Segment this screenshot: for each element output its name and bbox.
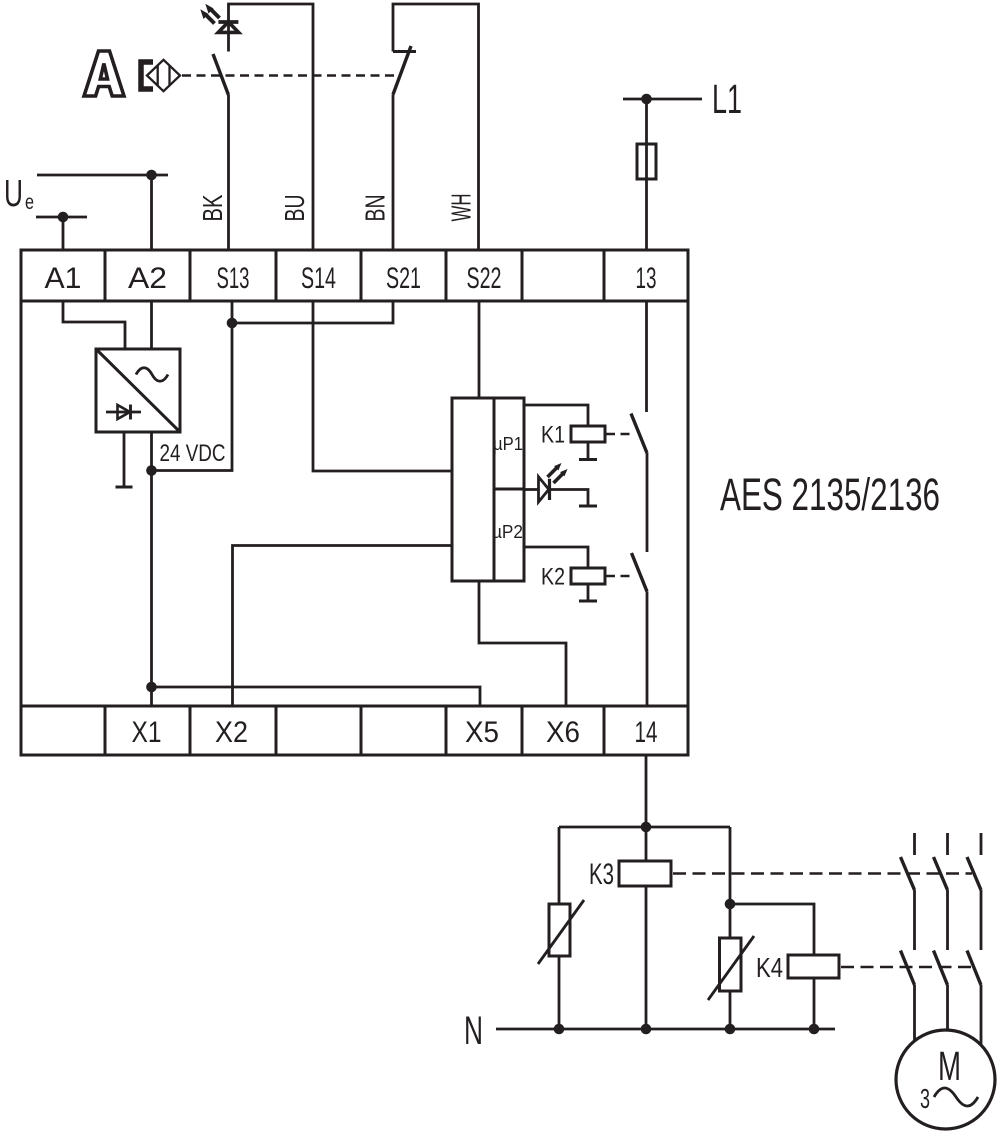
wire: varistor RV2 to N xyxy=(729,991,732,1029)
relay body outline xyxy=(21,250,688,755)
svg-text:e: e xyxy=(25,191,34,214)
node Ue label xyxy=(4,173,34,215)
svg-text:S21: S21 xyxy=(386,262,421,295)
contact K1 xyxy=(631,414,647,454)
svg-text:M: M xyxy=(938,1043,961,1089)
svg-text:3: 3 xyxy=(920,1083,930,1114)
svg-text:µP2: µP2 xyxy=(492,522,523,542)
wire: sensor LED cathode down to contact xyxy=(227,31,230,52)
motor phase sine xyxy=(934,1088,978,1106)
junction 24VDC node xyxy=(146,465,157,476)
svg-text:L1: L1 xyxy=(712,76,742,122)
wire and earth below K1 coil xyxy=(579,442,597,460)
svg-text:X1: X1 xyxy=(132,716,162,749)
contact K4 pole 1 xyxy=(901,951,915,986)
svg-text:X2: X2 xyxy=(215,716,248,749)
svg-text:S22: S22 xyxy=(467,262,502,295)
wire and earth below K2 coil xyxy=(579,584,597,601)
sensor contact NC (BN side) xyxy=(393,46,416,95)
wire: junction to varistor RV2 xyxy=(729,904,732,938)
mechanical link dashed line from actuator to contacts xyxy=(182,74,399,77)
wire: branch bar xyxy=(559,826,730,829)
svg-text:K1: K1 xyxy=(541,422,565,449)
fuse F1 xyxy=(637,144,656,179)
phase L2 stub xyxy=(946,833,949,855)
wire: L1 line xyxy=(623,98,702,101)
phase L1 stub xyxy=(913,833,916,855)
wire: Ue feed to A2 xyxy=(37,175,168,250)
contact K2 xyxy=(632,553,648,592)
wire: L1 to terminal 13 xyxy=(645,99,648,250)
relay coil K1 xyxy=(571,426,605,442)
wire: S13 to S21 link xyxy=(232,301,393,323)
svg-text:S14: S14 xyxy=(301,262,336,295)
wire: uP to status LED xyxy=(524,488,539,491)
wire: A1 to power supply xyxy=(63,301,125,349)
varistor RV2 xyxy=(708,936,754,1000)
contact K3 pole 2 xyxy=(934,857,948,890)
junction below 14 xyxy=(641,822,652,833)
wire: pole 1 to motor xyxy=(913,985,916,1041)
junction on A1 feed xyxy=(58,212,69,223)
microprocessor U2 xyxy=(452,398,524,581)
wire: contact K1 to contact K2 xyxy=(646,453,649,552)
svg-text:AES 2135/2136: AES 2135/2136 xyxy=(720,469,940,520)
wire: uP1 to K1 coil xyxy=(524,405,588,426)
wire: N line xyxy=(496,1028,835,1031)
wire: pole 2 to motor xyxy=(946,985,949,1031)
wire: power supply 24VDC output xyxy=(150,432,153,471)
svg-text:S13: S13 xyxy=(217,262,250,295)
status LED light arrows xyxy=(548,463,568,483)
junction right branch xyxy=(725,899,736,910)
dashed link K4 xyxy=(841,966,971,969)
wire and earth after status LED xyxy=(551,490,597,507)
power supply U1 xyxy=(96,349,180,432)
sensor LED xyxy=(218,22,238,32)
junction N-K4 xyxy=(809,1024,820,1035)
junction N-RV1 xyxy=(554,1024,565,1035)
relay coil K4 xyxy=(788,955,839,978)
wire: uP bottom to X6 xyxy=(479,581,566,706)
dashed link K2 xyxy=(606,575,631,578)
wire: X2 to uP2 input xyxy=(233,546,453,707)
svg-text:BK: BK xyxy=(197,194,228,221)
wire: uP2 to K2 coil xyxy=(524,547,588,568)
wire: pole 2 mid xyxy=(946,890,949,950)
svg-text:K2: K2 xyxy=(541,564,565,591)
svg-text:U: U xyxy=(4,173,23,215)
wire: sensor LED anode up over to S14 xyxy=(229,4,314,250)
magnet actuator symbol xyxy=(141,60,180,91)
junction N-RV2 xyxy=(725,1024,736,1035)
wire: 24VDC to S13 xyxy=(152,301,233,471)
svg-text:K4: K4 xyxy=(756,952,783,983)
svg-text:24 VDC: 24 VDC xyxy=(160,440,226,467)
actuator label A xyxy=(84,51,124,96)
terminal strip bottom row xyxy=(21,706,688,755)
wire: NC contact loop up over to S22 xyxy=(393,4,479,250)
motor M1 xyxy=(896,1030,995,1129)
wire: S14 to uP1 input xyxy=(313,301,452,471)
wire: K4 coil to N xyxy=(813,978,816,1029)
wire: A2 to power supply xyxy=(150,301,153,349)
contact K4 pole 2 xyxy=(934,951,948,986)
svg-text:X5: X5 xyxy=(465,716,499,749)
svg-text:WH: WH xyxy=(446,194,477,222)
relay coil K2 xyxy=(571,568,605,584)
contact K4 pole 3 xyxy=(967,951,981,986)
wire: junction to K4 coil xyxy=(730,904,814,955)
wire: NC contact to terminal S21 xyxy=(392,95,395,251)
relay coil K3 xyxy=(619,861,671,886)
svg-text:13: 13 xyxy=(636,262,657,295)
svg-text:A1: A1 xyxy=(45,262,82,295)
wire: pole 1 mid xyxy=(913,890,916,950)
wire: terminal 14 down xyxy=(645,755,648,861)
wire: Ue feed to A1 xyxy=(36,217,87,250)
wire: contact K2 to terminal 14 xyxy=(646,592,649,707)
terminal strip top row xyxy=(21,250,688,301)
status LED xyxy=(539,477,550,502)
wire: S22 to uP xyxy=(478,301,481,398)
junction on S13 wire xyxy=(227,318,238,329)
wire: K3 coil to N xyxy=(645,886,648,1029)
wire: NO contact to terminal S13 xyxy=(227,95,230,250)
svg-text:14: 14 xyxy=(635,716,658,749)
junction on A2 feed xyxy=(146,170,157,181)
svg-text:µP1: µP1 xyxy=(493,434,523,454)
wire: varistor RV1 to N xyxy=(558,956,561,1029)
wire: right branch down xyxy=(729,827,732,904)
svg-text:BU: BU xyxy=(279,195,310,222)
junction 0V rail xyxy=(146,682,157,693)
dashed link K3 xyxy=(673,872,972,875)
junction N-K3 xyxy=(641,1024,652,1035)
wire: 0V rail down from 24VDC junction xyxy=(150,471,153,707)
functional earth below power supply xyxy=(116,432,133,487)
sensor contact NO (BK side) xyxy=(213,54,229,95)
varistor RV1 xyxy=(538,900,584,964)
svg-text:X6: X6 xyxy=(546,716,580,749)
svg-text:BN: BN xyxy=(360,195,391,222)
sensor LED light arrows xyxy=(200,4,219,24)
wire: pole 3 mid xyxy=(980,890,983,950)
svg-text:N: N xyxy=(464,1009,483,1053)
junction L1 xyxy=(641,94,652,105)
wire: pole 3 to motor xyxy=(980,985,983,1046)
wire: 0V rail to X5 xyxy=(152,687,481,706)
wire: left branch to varistor xyxy=(558,827,561,904)
dashed link K1 xyxy=(606,433,631,436)
contact K3 pole 3 xyxy=(967,857,981,890)
contact K3 pole 1 xyxy=(901,857,915,890)
wire: terminal 13 to contact K1 xyxy=(645,301,648,412)
phase L3 stub xyxy=(980,833,983,855)
svg-text:A2: A2 xyxy=(128,262,167,295)
svg-text:K3: K3 xyxy=(589,858,614,891)
